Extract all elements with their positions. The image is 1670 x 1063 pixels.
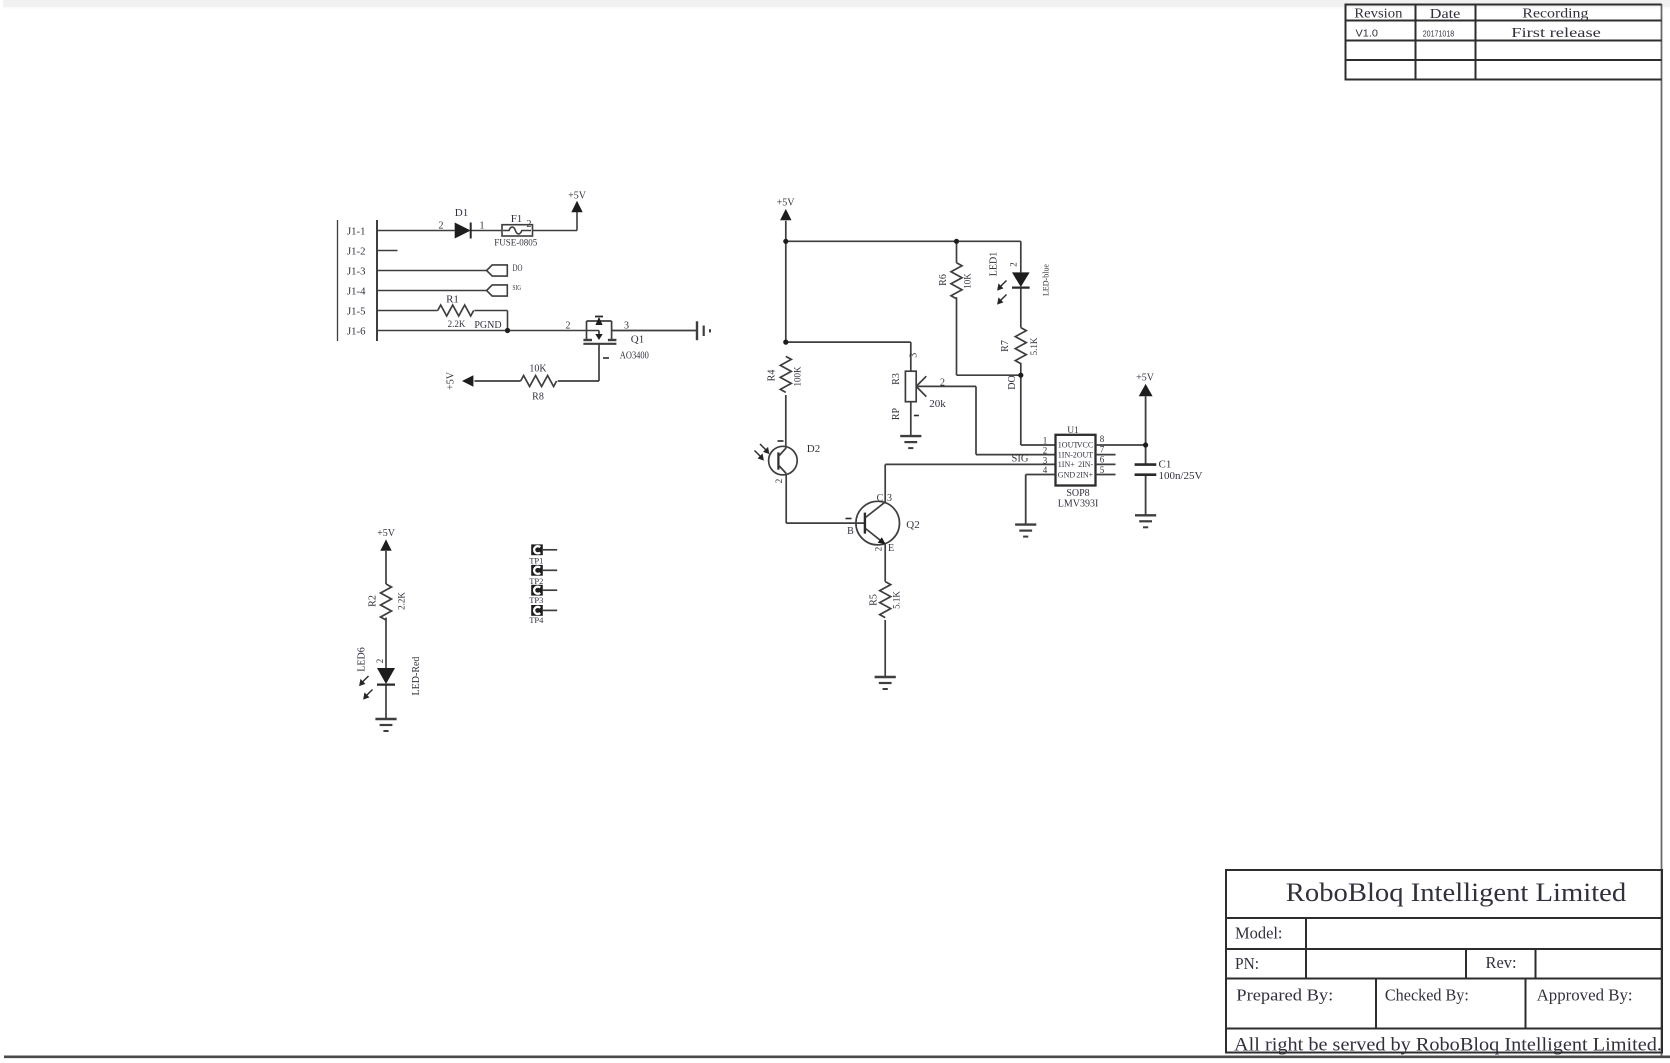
- svg-text:DO: DO: [513, 264, 523, 274]
- svg-text:R7: R7: [1000, 340, 1011, 352]
- svg-text:Recording: Recording: [1522, 6, 1588, 21]
- svg-text:Date: Date: [1430, 7, 1461, 22]
- svg-text:7: 7: [1100, 445, 1105, 455]
- svg-text:GND: GND: [1058, 470, 1076, 479]
- svg-text:D1: D1: [455, 207, 468, 219]
- svg-text:C: C: [877, 493, 884, 504]
- svg-text:3: 3: [909, 353, 920, 358]
- svg-text:R3: R3: [891, 373, 902, 385]
- svg-text:SOP8: SOP8: [1066, 488, 1089, 499]
- svg-text:+5V: +5V: [777, 198, 796, 209]
- svg-text:+5V: +5V: [568, 191, 587, 202]
- svg-text:Prepared By:: Prepared By:: [1236, 986, 1333, 1005]
- svg-text:8: 8: [1100, 434, 1105, 444]
- svg-text:LMV393I: LMV393I: [1058, 499, 1099, 510]
- svg-text:TP4: TP4: [529, 615, 544, 625]
- svg-text:10K: 10K: [963, 273, 973, 289]
- svg-text:2: 2: [874, 547, 884, 552]
- svg-text:2: 2: [527, 219, 532, 230]
- svg-text:2: 2: [439, 221, 444, 232]
- svg-text:TP3: TP3: [529, 595, 543, 605]
- svg-text:PGND: PGND: [474, 320, 501, 331]
- svg-text:2: 2: [1009, 262, 1019, 267]
- svg-text:2.2K: 2.2K: [448, 319, 466, 329]
- svg-text:C1: C1: [1159, 459, 1172, 471]
- svg-text:100K: 100K: [793, 366, 803, 387]
- svg-text:J1-6: J1-6: [347, 326, 366, 338]
- svg-text:5: 5: [1100, 465, 1105, 475]
- svg-text:2: 2: [774, 479, 784, 484]
- svg-text:LED1: LED1: [989, 252, 1000, 276]
- svg-text:B: B: [847, 526, 854, 537]
- svg-text:Revsion: Revsion: [1354, 6, 1402, 21]
- svg-text:TP2: TP2: [529, 576, 543, 586]
- svg-text:+5V: +5V: [377, 528, 396, 539]
- svg-text:D2: D2: [807, 443, 820, 455]
- svg-text:2.2K: 2.2K: [397, 592, 407, 610]
- svg-text:TP1: TP1: [529, 556, 543, 566]
- svg-text:1OUT: 1OUT: [1058, 441, 1079, 450]
- svg-text:2: 2: [940, 378, 945, 389]
- svg-text:3: 3: [1043, 455, 1048, 465]
- svg-text:F1: F1: [511, 213, 523, 225]
- svg-text:R1: R1: [446, 294, 459, 306]
- svg-text:5.1K: 5.1K: [1029, 337, 1039, 355]
- svg-text:Approved By:: Approved By:: [1537, 986, 1633, 1005]
- svg-text:PN:: PN:: [1235, 954, 1259, 973]
- svg-text:VCC: VCC: [1077, 441, 1093, 450]
- svg-text:2OUT: 2OUT: [1073, 450, 1094, 459]
- svg-text:20171018: 20171018: [1423, 29, 1455, 38]
- svg-text:J1-1: J1-1: [347, 226, 366, 238]
- svg-text:R8: R8: [532, 392, 544, 403]
- svg-text:LED6: LED6: [357, 647, 368, 671]
- svg-text:+5V: +5V: [446, 371, 457, 390]
- svg-text:2IN+: 2IN+: [1076, 470, 1093, 479]
- svg-text:1IN-: 1IN-: [1058, 450, 1073, 459]
- svg-text:V1.0: V1.0: [1356, 28, 1379, 39]
- svg-text:Model:: Model:: [1235, 924, 1283, 943]
- svg-text:First release: First release: [1511, 26, 1601, 41]
- svg-text:R6: R6: [938, 274, 949, 286]
- svg-text:R2: R2: [368, 595, 379, 607]
- svg-text:All right be served by RoboBlo: All right be served by RoboBloq Intellig…: [1234, 1035, 1662, 1055]
- svg-text:R4: R4: [767, 370, 778, 382]
- svg-text:2: 2: [1043, 446, 1048, 456]
- svg-text:Q1: Q1: [631, 334, 644, 346]
- svg-text:AO3400: AO3400: [620, 351, 649, 362]
- svg-text:Q2: Q2: [906, 519, 919, 531]
- svg-text:J1-5: J1-5: [347, 306, 366, 318]
- svg-text:SIG: SIG: [1012, 454, 1029, 465]
- svg-text:R5: R5: [869, 594, 880, 606]
- svg-text:J1-4: J1-4: [347, 286, 366, 298]
- svg-text:3: 3: [624, 321, 629, 332]
- svg-text:100n/25V: 100n/25V: [1159, 470, 1203, 482]
- svg-text:DO: DO: [1007, 375, 1018, 389]
- svg-text:4: 4: [1043, 465, 1048, 475]
- svg-text:J1-2: J1-2: [347, 246, 366, 258]
- svg-text:U1: U1: [1067, 426, 1079, 436]
- svg-text:10K: 10K: [529, 364, 547, 375]
- svg-text:5.1K: 5.1K: [892, 591, 902, 609]
- svg-text:1: 1: [1043, 436, 1048, 446]
- svg-text:20k: 20k: [929, 398, 946, 410]
- svg-text:LED-Red: LED-Red: [411, 657, 422, 696]
- svg-text:6: 6: [1100, 455, 1105, 465]
- svg-text:+5V: +5V: [1136, 373, 1155, 384]
- svg-text:2: 2: [566, 321, 571, 332]
- svg-text:SIG: SIG: [513, 284, 522, 292]
- svg-text:2: 2: [375, 659, 385, 664]
- svg-text:RP: RP: [891, 407, 902, 420]
- svg-text:3: 3: [887, 493, 892, 504]
- svg-text:Rev:: Rev:: [1486, 953, 1517, 972]
- svg-text:RoboBloq Intelligent Limited: RoboBloq Intelligent Limited: [1286, 878, 1626, 907]
- svg-text:Checked By:: Checked By:: [1385, 986, 1469, 1005]
- svg-text:2IN-: 2IN-: [1078, 460, 1093, 469]
- svg-text:E: E: [888, 543, 894, 554]
- svg-text:FUSE-0805: FUSE-0805: [494, 238, 537, 248]
- svg-text:LED-blue: LED-blue: [1042, 264, 1051, 296]
- svg-text:1IN+: 1IN+: [1058, 460, 1075, 469]
- svg-text:1: 1: [480, 221, 485, 232]
- svg-text:J1-3: J1-3: [347, 266, 366, 278]
